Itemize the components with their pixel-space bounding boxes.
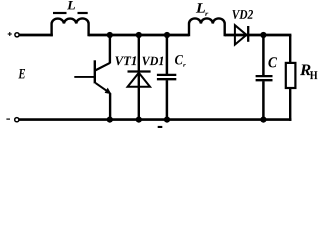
wire top rail from Lr to right corner — [225, 34, 292, 37]
capacitor C plate bottom — [256, 79, 273, 81]
node dot emitter bottom — [107, 117, 113, 123]
label E — [18, 69, 25, 78]
transistor VT1 collector diagonal — [95, 63, 110, 71]
label VT1 — [115, 56, 136, 65]
wire right corner down to RH — [289, 35, 291, 63]
capacitor Cr wire bottom — [166, 80, 169, 119]
capacitor C wire top — [262, 35, 265, 75]
node dot collector — [107, 32, 113, 38]
transistor VT1 collector wire — [109, 35, 111, 63]
capacitor C wire bottom — [262, 81, 265, 119]
node dot Cr top — [164, 32, 170, 38]
label C — [268, 57, 277, 67]
inductor Lr — [189, 18, 225, 36]
diode VD2 triangle — [235, 25, 247, 44]
node dot after VD2 — [260, 32, 266, 38]
label Cr — [175, 55, 183, 64]
label VD1 — [142, 57, 163, 66]
label RH — [300, 65, 311, 76]
core dash 1 of L — [53, 12, 67, 14]
node dot C bottom — [260, 117, 266, 123]
capacitor Cr plate bottom — [157, 78, 176, 80]
core dash 2 of L — [78, 12, 88, 14]
resistor RH box — [286, 63, 296, 88]
capacitor Cr wire top — [166, 35, 169, 74]
transistor VT1 emitter diagonal — [96, 83, 111, 93]
transistor VT1 emitter wire — [109, 93, 111, 119]
diode VD1 wire — [138, 35, 140, 120]
node dot Cr bottom — [164, 117, 170, 123]
label L — [67, 1, 75, 9]
transistor VT1 bar — [94, 60, 96, 83]
terminal - sign — [6, 118, 10, 120]
wire top rail from L to Lr — [89, 34, 189, 37]
bottom rail wire — [19, 118, 292, 121]
transistor VT1 base stub — [74, 76, 95, 78]
label VD2 — [232, 10, 253, 19]
wire RH to bottom rail — [289, 88, 291, 121]
capacitor Cr plate top — [157, 74, 176, 76]
cropped caption mark at bottom edge — [158, 126, 163, 128]
terminal + circle — [15, 33, 19, 37]
diode VD2 cathode bar — [247, 26, 249, 42]
diode VD1 cathode bar — [128, 70, 151, 72]
diode VD1 triangle — [128, 73, 150, 87]
terminal - circle — [15, 118, 19, 122]
node dot VD1 top — [136, 32, 142, 38]
transistor VT1 emitter arrowhead — [105, 88, 111, 94]
capacitor C plate top — [256, 75, 273, 77]
inductor L — [52, 18, 89, 36]
wire from + terminal to inductor L — [19, 34, 53, 37]
label Lr — [196, 3, 205, 12]
terminal + sign — [8, 32, 12, 36]
node dot VD1 bottom — [136, 117, 142, 123]
